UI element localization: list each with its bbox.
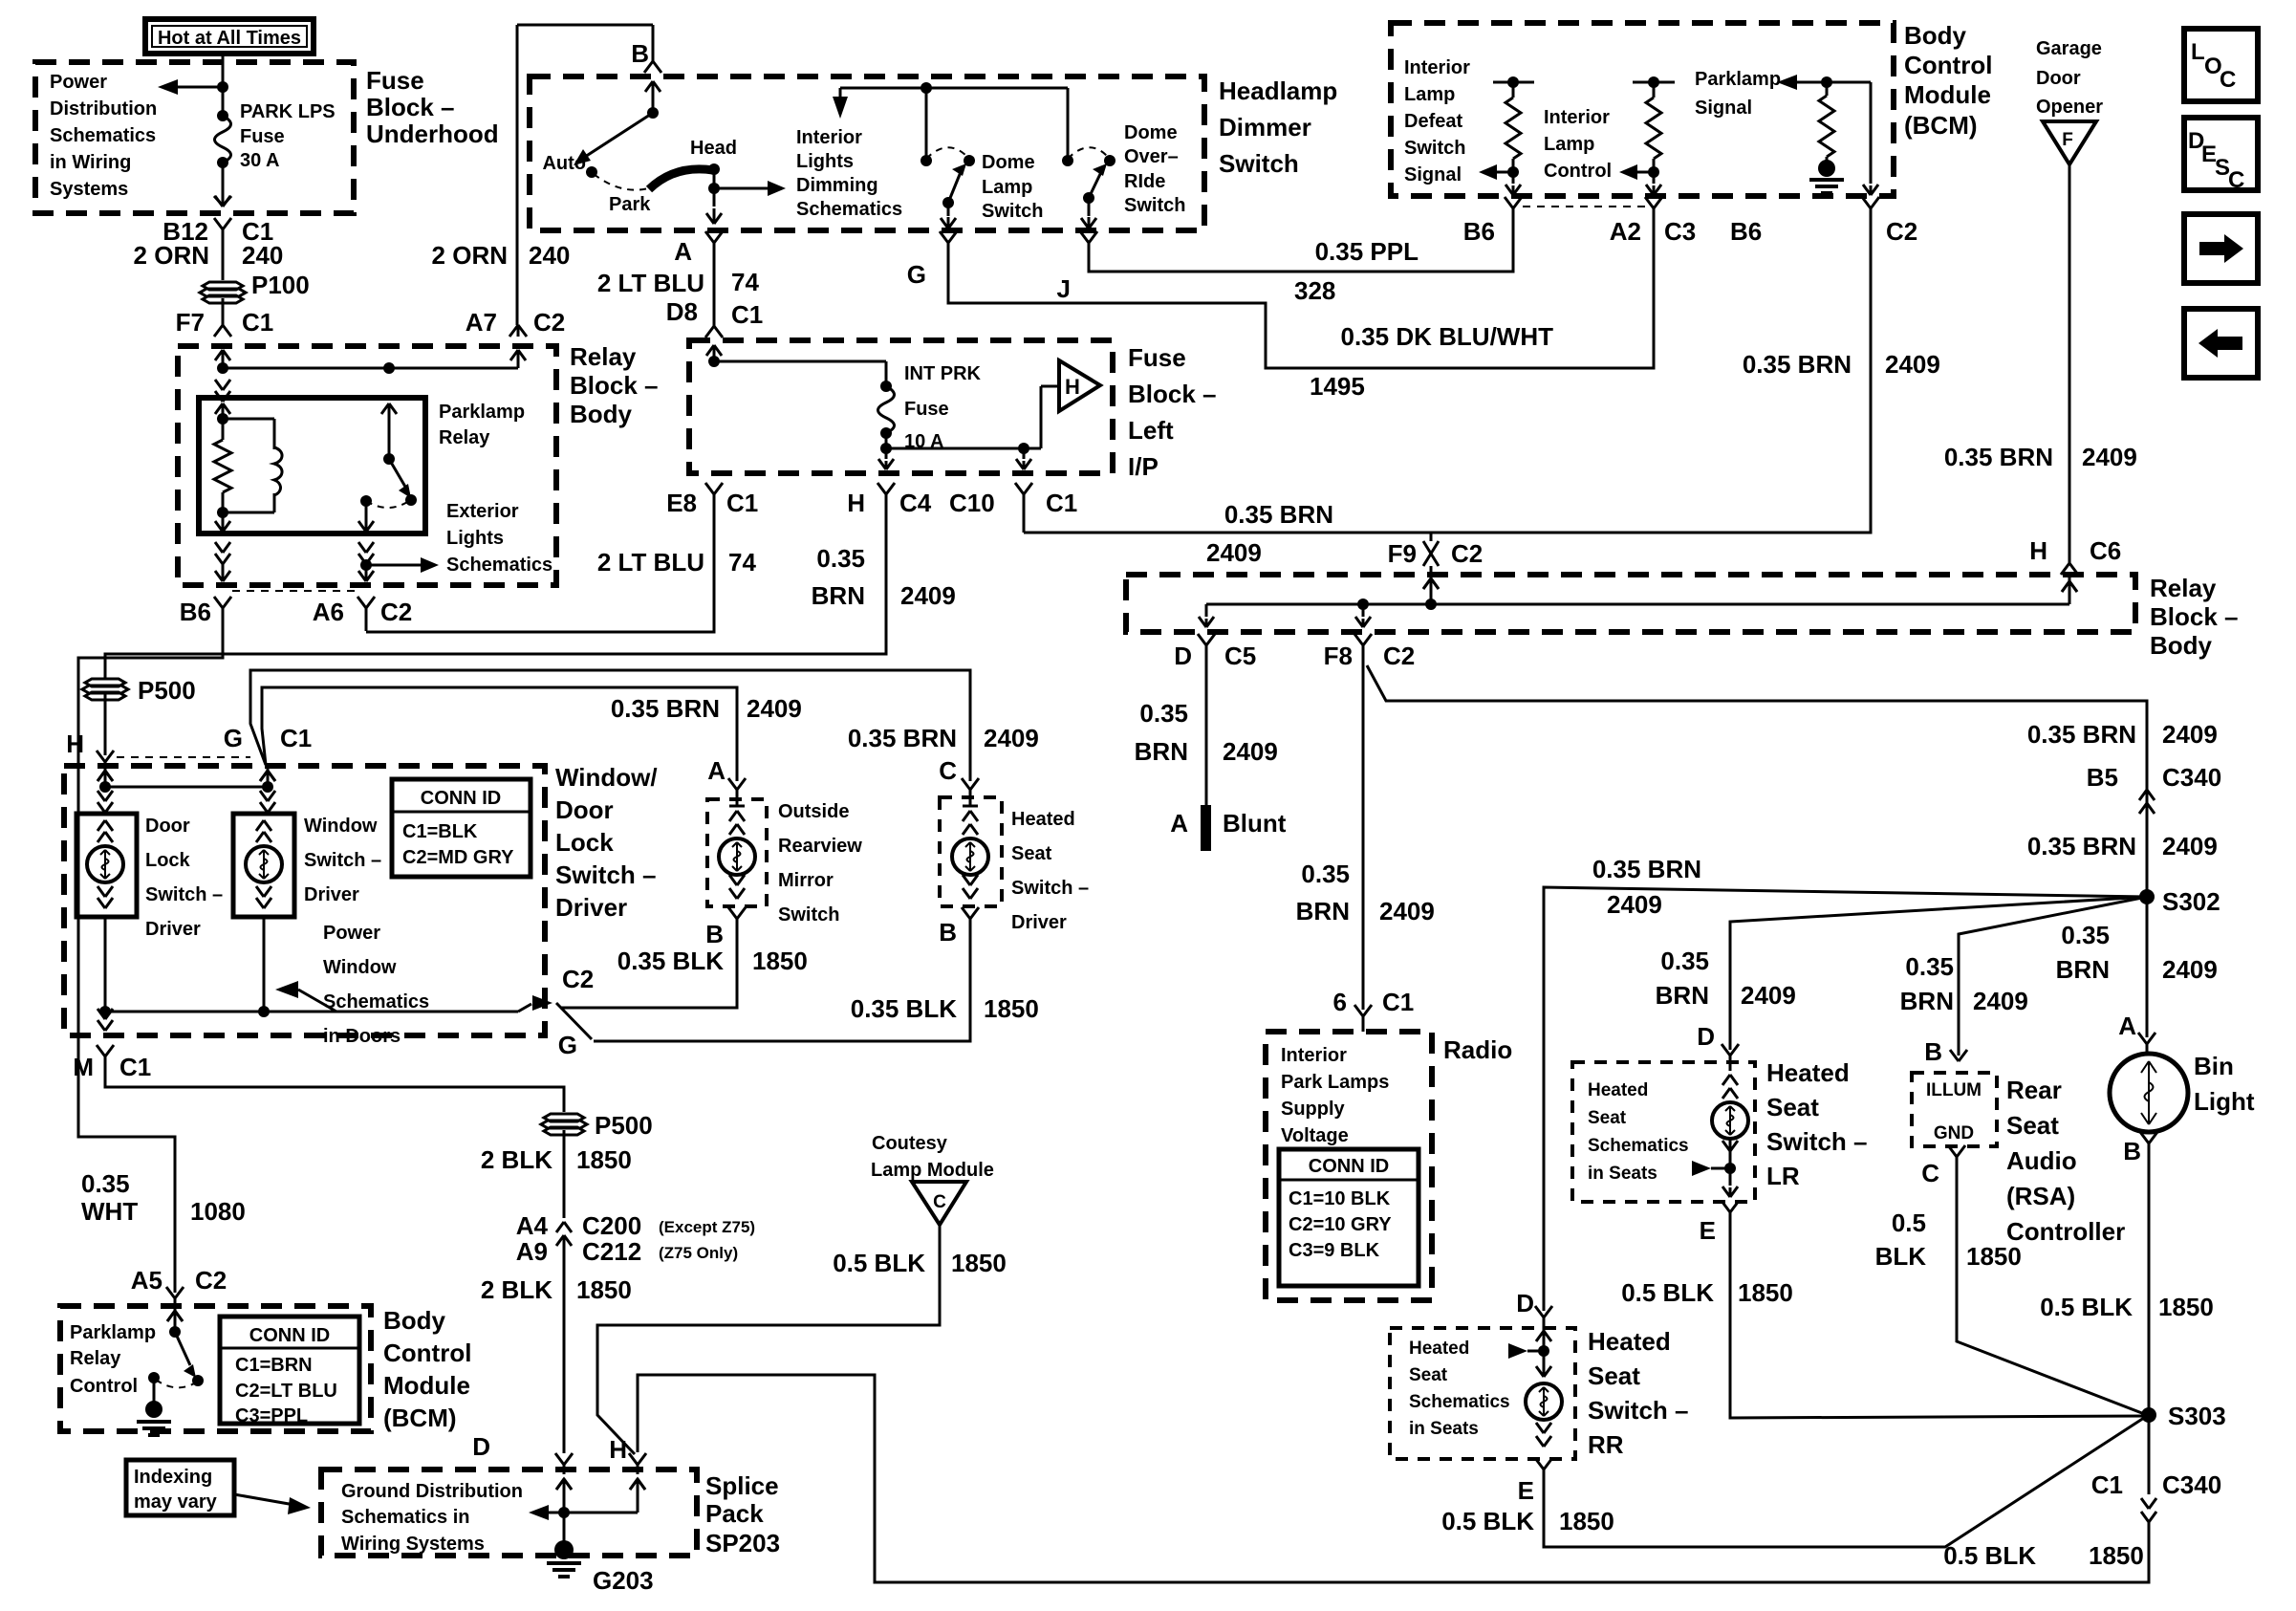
dashed box: Relay Block - Body (right) — [1126, 575, 2135, 632]
svg-text:Control: Control — [1544, 161, 1612, 182]
svg-text:0.35 BRN: 0.35 BRN — [1224, 500, 1333, 529]
svg-text:Lamp Module: Lamp Module — [871, 1160, 994, 1181]
wire C200 to splice D — [563, 1235, 566, 1453]
svg-text:C2: C2 — [533, 308, 565, 337]
svg-text:E: E — [1700, 1216, 1716, 1245]
dashed arc dome lamp switch — [926, 147, 966, 159]
svg-text:Body: Body — [2150, 631, 2213, 660]
wire mirror A riser — [262, 687, 737, 781]
connector A (mirror) — [728, 778, 737, 790]
wire heated RR E to S303 — [1544, 1416, 2147, 1547]
svg-text:2 ORN: 2 ORN — [134, 241, 209, 270]
wire heated LR E to S303 — [1730, 1226, 2147, 1418]
relay switch feed arrow — [381, 403, 389, 414]
C1 exit arrow — [1023, 448, 1026, 459]
svg-text:Body: Body — [1904, 21, 1967, 50]
svg-text:Heated: Heated — [1588, 1080, 1648, 1100]
parklamp relay control blade — [175, 1332, 190, 1365]
svg-text:Control: Control — [70, 1376, 138, 1397]
wire RSA C to S303 — [1957, 1170, 2147, 1415]
dashed box: Radio — [1266, 1032, 1432, 1300]
svg-text:C: C — [933, 1192, 946, 1212]
svg-text:C1: C1 — [2091, 1470, 2123, 1499]
connector B6 (relay block) — [214, 597, 223, 608]
svg-text:Lock: Lock — [555, 828, 614, 857]
connector D (heated RR) — [1535, 1306, 1544, 1317]
garage door opener triangle F — [2043, 121, 2096, 164]
svg-text:Switch –: Switch – — [304, 850, 381, 871]
fuse block feed arrow — [706, 345, 714, 356]
svg-text:D: D — [1697, 1022, 1715, 1051]
door lock lamp symbol — [97, 820, 105, 831]
svg-text:A6: A6 — [313, 598, 344, 626]
dome override feed — [1067, 88, 1070, 161]
svg-text:1850: 1850 — [1738, 1278, 1793, 1307]
connector 6 / C1 (radio) — [1354, 1005, 1363, 1016]
svg-text:2409: 2409 — [1206, 538, 1262, 567]
connector P100 — [203, 282, 243, 290]
wire Head down to A — [713, 169, 716, 207]
wire F8 down to radio — [1362, 662, 1365, 1010]
splice H entry arrow — [637, 1465, 639, 1474]
thin dashed strip H to G — [117, 756, 250, 758]
connector F7 / C1 — [214, 325, 223, 337]
connector E8 / C1 — [705, 483, 714, 494]
connector B6 / C2 (parklamp signal) — [1862, 197, 1871, 208]
relay block internal bus — [1206, 603, 2069, 606]
svg-text:Lights: Lights — [796, 151, 854, 172]
connector C1 / C340 — [2141, 1498, 2149, 1509]
heated RR switch symbol — [1543, 1331, 1546, 1377]
connector B5 / C340 — [2139, 790, 2147, 800]
reference box LOC — [2184, 29, 2258, 101]
svg-text:H: H — [66, 729, 84, 758]
svg-text:PARK LPS: PARK LPS — [240, 101, 336, 122]
svg-text:P500: P500 — [595, 1111, 653, 1140]
svg-text:E: E — [1518, 1476, 1534, 1505]
svg-text:M: M — [73, 1053, 94, 1081]
window switch box — [233, 814, 294, 917]
svg-text:Switch: Switch — [1219, 149, 1299, 178]
courtesy lamp triangle C — [912, 1182, 966, 1225]
svg-text:Schematics: Schematics — [1588, 1136, 1689, 1156]
wire heated seats ground to splice H — [638, 1375, 2149, 1582]
wire: hot feed into PARK LPS fuse — [222, 54, 225, 116]
svg-text:Headlamp: Headlamp — [1219, 76, 1337, 105]
connector H / C4 — [877, 483, 886, 494]
connector F8 / C2 — [1354, 634, 1363, 645]
svg-text:in Seats: in Seats — [1409, 1419, 1479, 1439]
svg-text:may vary: may vary — [134, 1491, 218, 1513]
svg-text:in Wiring: in Wiring — [50, 152, 131, 173]
connector B (bin light) — [2140, 1132, 2149, 1143]
parklamp relay control contacts — [192, 1375, 204, 1386]
svg-text:Lamp: Lamp — [1544, 134, 1594, 155]
svg-text:Park: Park — [609, 194, 651, 215]
svg-text:S303: S303 — [2168, 1402, 2226, 1430]
dimmer switch blade to Auto — [585, 113, 653, 157]
svg-text:C5: C5 — [1224, 642, 1256, 670]
svg-text:2409: 2409 — [2162, 955, 2218, 984]
svg-text:2409: 2409 — [900, 581, 956, 610]
junction on hot feed — [217, 81, 228, 93]
wire: P100 to F7 — [222, 298, 225, 325]
connector B12 / C1 — [214, 218, 223, 229]
svg-text:Schematics in: Schematics in — [341, 1507, 470, 1528]
svg-text:C1: C1 — [1046, 489, 1077, 517]
resistor: interior lamp control — [1633, 81, 1675, 84]
svg-text:Parklamp: Parklamp — [1695, 69, 1781, 90]
wire/arrow F7 entry — [215, 350, 223, 360]
svg-text:0.35: 0.35 — [1139, 699, 1188, 728]
connector H / C6 — [2061, 563, 2069, 575]
svg-text:H: H — [2029, 536, 2047, 565]
arrow lamp control — [1634, 171, 1654, 174]
svg-text:Head: Head — [690, 138, 737, 159]
svg-text:Switch –: Switch – — [1588, 1396, 1688, 1425]
dashed box: Heated Seat Switch - LR — [1572, 1062, 1755, 1202]
heated seat driver switch symbol — [969, 790, 972, 806]
mirror switch symbol — [736, 790, 739, 806]
thin dashed strip under BCM — [1523, 206, 1646, 207]
svg-text:Window: Window — [304, 816, 378, 837]
svg-text:F8: F8 — [1324, 642, 1353, 670]
fuse output junction — [885, 433, 888, 448]
relay coil entry arrow — [215, 403, 223, 414]
svg-text:Schematics: Schematics — [1409, 1392, 1510, 1412]
dome feed arrow down — [839, 88, 842, 98]
svg-text:Seat: Seat — [2006, 1111, 2059, 1140]
svg-text:CONN ID: CONN ID — [421, 788, 501, 809]
svg-text:0.35 BRN: 0.35 BRN — [2027, 832, 2136, 860]
CONN ID box (radio) — [1279, 1149, 1419, 1286]
svg-text:G203: G203 — [593, 1566, 654, 1595]
svg-text:C10: C10 — [949, 489, 995, 517]
connector B6 (defeat) — [1505, 197, 1513, 208]
svg-text:B: B — [705, 920, 724, 948]
label box: Indexing may vary — [126, 1460, 234, 1515]
svg-text:C2: C2 — [1451, 539, 1483, 568]
connector D8 / C1 — [705, 326, 714, 337]
wire BCM C2 down to F9 bus — [1024, 208, 1871, 533]
feed bus — [99, 781, 111, 793]
svg-text:A9: A9 — [516, 1237, 548, 1266]
internal ground bus to C2 — [105, 1011, 518, 1013]
svg-text:Schematics: Schematics — [446, 555, 552, 576]
dome lamp switch contact — [964, 155, 975, 166]
ground (BCM parklamp signal) — [1809, 178, 1844, 182]
svg-text:Switch: Switch — [778, 904, 839, 925]
svg-text:in Doors: in Doors — [323, 1026, 401, 1047]
window switch lamp symbol — [256, 820, 264, 831]
CONN ID box (window/door lock) — [392, 779, 531, 877]
svg-text:Dimming: Dimming — [796, 175, 878, 196]
ground G203 — [547, 1561, 581, 1565]
relay switch output arrow — [365, 501, 368, 522]
svg-text:B: B — [939, 918, 957, 947]
svg-text:A: A — [674, 237, 692, 266]
svg-text:C200: C200 — [582, 1211, 641, 1240]
heated LR switch symbol — [1729, 1056, 1732, 1071]
door lock lead chevrons — [97, 791, 105, 801]
connector B (RSA) — [1950, 1050, 1959, 1061]
svg-text:Seat: Seat — [1588, 1361, 1640, 1390]
dashed box: Relay Block - Body (left) — [178, 346, 556, 585]
svg-text:Switch –: Switch – — [1011, 878, 1089, 899]
arrow power window schematics — [275, 981, 298, 998]
svg-text:S302: S302 — [2162, 887, 2220, 916]
connector P500 (upper) — [85, 679, 125, 686]
svg-text:WHT: WHT — [81, 1197, 138, 1226]
svg-text:I/P: I/P — [1128, 452, 1159, 481]
svg-text:F7: F7 — [176, 308, 205, 337]
svg-text:Block –: Block – — [1128, 380, 1217, 408]
svg-text:Lamp: Lamp — [1404, 84, 1455, 105]
connector G (dimmer) — [940, 231, 948, 243]
svg-text:G: G — [907, 260, 926, 289]
svg-text:C2: C2 — [195, 1266, 227, 1295]
svg-text:Switch –: Switch – — [555, 860, 656, 889]
svg-text:0.35 BLK: 0.35 BLK — [617, 947, 724, 975]
door lock switch box — [76, 814, 137, 917]
svg-text:Power: Power — [323, 923, 380, 944]
svg-text:1850: 1850 — [576, 1275, 632, 1304]
H/C4 exit arrow — [885, 448, 888, 459]
junction F7 bus — [217, 362, 228, 374]
heated LR exit arrow — [1722, 1186, 1730, 1197]
svg-text:0.35 BRN: 0.35 BRN — [848, 724, 957, 752]
connector D / C5 — [1198, 634, 1206, 645]
svg-text:0.35 BLK: 0.35 BLK — [851, 994, 957, 1023]
svg-text:2409: 2409 — [1973, 987, 2028, 1015]
connector D (heated LR) — [1722, 1044, 1730, 1056]
dashed box: Fuse Block - Left I/P — [689, 340, 1113, 473]
svg-text:Underhood: Underhood — [366, 120, 499, 148]
connector B — [644, 61, 653, 73]
svg-text:H: H — [1065, 375, 1080, 399]
svg-text:H: H — [609, 1435, 627, 1464]
svg-text:30 A: 30 A — [240, 150, 280, 171]
svg-text:Interior: Interior — [796, 127, 862, 148]
F9 entry arrow — [1423, 578, 1431, 589]
dashed link relay contacts — [366, 501, 409, 508]
bin light — [2110, 1054, 2188, 1132]
svg-text:C: C — [2228, 167, 2244, 193]
M exit chevrons — [97, 1009, 105, 1019]
Auto contact — [586, 166, 597, 178]
svg-text:P500: P500 — [138, 676, 196, 705]
svg-text:Garage: Garage — [2036, 38, 2102, 59]
relay coil — [223, 418, 274, 421]
svg-text:Dome: Dome — [1124, 122, 1178, 143]
dashed box: Power Distribution Schematics in Wiring Systems — [35, 62, 354, 213]
svg-text:CONN ID: CONN ID — [1309, 1156, 1389, 1177]
svg-text:1495: 1495 — [1310, 372, 1365, 401]
D exit — [1205, 604, 1208, 617]
svg-text:D8: D8 — [666, 297, 698, 326]
wire 2 ORN to headlamp dimmer B — [516, 25, 519, 325]
dashed box: Headlamp Dimmer Switch — [530, 76, 1204, 230]
svg-text:Signal: Signal — [1404, 164, 1462, 185]
splice D entry arrow — [563, 1465, 566, 1474]
wire 0.35 PPL 328 — [1089, 208, 1513, 272]
ground (parklamp relay control) — [137, 1420, 171, 1424]
svg-text:0.35 BRN: 0.35 BRN — [1743, 350, 1852, 379]
svg-text:0.35: 0.35 — [2061, 921, 2110, 949]
svg-text:(BCM): (BCM) — [383, 1404, 457, 1432]
blunt terminal — [1201, 805, 1211, 851]
arrow defeat signal — [1493, 171, 1513, 174]
svg-text:A: A — [1170, 809, 1188, 838]
wire P500 to C200 — [563, 1130, 566, 1218]
dimmer A exit arrow — [706, 213, 714, 224]
svg-text:Power: Power — [50, 72, 107, 93]
svg-text:Auto: Auto — [542, 153, 586, 174]
svg-text:Window: Window — [323, 957, 397, 978]
svg-text:G: G — [558, 1031, 577, 1059]
wire mirror B to C2 — [560, 931, 737, 1008]
svg-text:D: D — [472, 1432, 490, 1461]
svg-text:2409: 2409 — [2162, 832, 2218, 860]
svg-text:0.35 DK BLU/WHT: 0.35 DK BLU/WHT — [1341, 322, 1554, 351]
connector E (heated LR) — [1722, 1201, 1730, 1212]
relay switch blade — [389, 459, 405, 487]
svg-text:C1: C1 — [726, 489, 758, 517]
connector A (bin light) — [2138, 1033, 2147, 1044]
thin dashed connector strip — [232, 590, 356, 592]
wire C10/C1 to F9 bus — [1023, 509, 1026, 533]
svg-text:Switch: Switch — [1124, 195, 1185, 216]
wire A7 riser — [517, 350, 520, 368]
svg-text:Driver: Driver — [555, 893, 627, 922]
svg-text:Audio: Audio — [2006, 1146, 2077, 1175]
connector H (window/door lock) — [97, 751, 105, 762]
svg-text:A: A — [707, 756, 726, 785]
heated RR splice arrow — [1508, 1343, 1527, 1359]
connector A2 / C3 — [1645, 197, 1654, 208]
dome lamp switch feed — [925, 88, 928, 161]
svg-text:Door: Door — [555, 795, 614, 824]
svg-text:CONN ID: CONN ID — [249, 1325, 330, 1346]
Head contact — [708, 163, 720, 175]
svg-text:1850: 1850 — [576, 1145, 632, 1174]
relay switch pivot — [383, 453, 395, 465]
dashed box: Outside Rearview Mirror Switch — [707, 799, 767, 906]
heated LR splice arrow — [1692, 1161, 1711, 1176]
wire: fuse to B12 — [222, 163, 225, 205]
connector C (heated seat driver) — [962, 778, 970, 790]
svg-text:C212: C212 — [582, 1237, 641, 1266]
svg-text:Coutesy: Coutesy — [872, 1133, 948, 1154]
svg-text:Heated: Heated — [1409, 1339, 1469, 1359]
dome override contact — [1104, 155, 1116, 166]
wire garage door opener to H/C6 — [2069, 164, 2071, 563]
wire S303 to C1/C340 — [2148, 1415, 2151, 1494]
resistor: interior lamp defeat — [1493, 81, 1534, 84]
svg-text:L: L — [2191, 39, 2205, 65]
svg-text:INT PRK: INT PRK — [904, 363, 982, 384]
svg-text:BRN: BRN — [1900, 987, 1954, 1015]
svg-text:Lamp: Lamp — [982, 177, 1032, 198]
svg-text:Indexing: Indexing — [134, 1467, 212, 1488]
svg-text:Relay: Relay — [439, 427, 490, 448]
svg-text:2409: 2409 — [984, 724, 1039, 752]
junction exterior lights — [360, 559, 372, 571]
svg-text:Defeat: Defeat — [1404, 111, 1462, 132]
wire E8 to A6/C2 — [366, 509, 714, 632]
svg-text:Schematics: Schematics — [50, 125, 156, 146]
reference box arrow right — [2184, 214, 2258, 283]
svg-text:1850: 1850 — [1559, 1507, 1614, 1535]
connector C10 / C1 — [1015, 483, 1024, 494]
svg-text:C1: C1 — [1382, 988, 1414, 1016]
wire G riser to supply — [250, 670, 970, 781]
relay to A6 lead chevrons — [215, 542, 223, 553]
wire heated B to C2 — [594, 932, 970, 1041]
dome lamp switch blade — [942, 197, 954, 208]
H/C6 entry arrow — [2069, 575, 2071, 604]
svg-text:Distribution: Distribution — [50, 98, 157, 120]
svg-text:A7: A7 — [466, 308, 497, 337]
svg-text:Rearview: Rearview — [778, 836, 862, 857]
connector A7 / C2 labels — [509, 325, 518, 337]
svg-text:Body: Body — [570, 400, 633, 428]
svg-text:BLK: BLK — [1875, 1242, 1927, 1271]
svg-text:2 LT BLU: 2 LT BLU — [597, 269, 704, 297]
svg-text:C3=9 BLK: C3=9 BLK — [1289, 1240, 1380, 1261]
svg-text:Control: Control — [383, 1339, 471, 1367]
svg-text:0.5 BLK: 0.5 BLK — [833, 1249, 925, 1277]
svg-text:Rear: Rear — [2006, 1076, 2062, 1104]
connector A6 / C2 — [357, 597, 366, 608]
svg-text:2409: 2409 — [2162, 720, 2218, 749]
svg-text:Interior: Interior — [1281, 1045, 1347, 1066]
svg-text:H: H — [847, 489, 865, 517]
svg-text:C340: C340 — [2162, 1470, 2221, 1499]
svg-text:A: A — [2118, 1012, 2136, 1040]
control exit arrow — [1653, 172, 1656, 184]
dimmer feed arrow — [645, 81, 653, 92]
svg-text:Seat: Seat — [1011, 843, 1052, 864]
svg-text:1850: 1850 — [2158, 1293, 2214, 1321]
svg-text:BRN: BRN — [812, 581, 865, 610]
svg-text:240: 240 — [529, 241, 570, 270]
dashed box: Splice Pack SP203 — [321, 1469, 697, 1556]
svg-text:BRN: BRN — [1135, 737, 1188, 766]
wire H/C4 down: 0.35 BRN 2409 — [105, 509, 886, 677]
svg-text:BRN: BRN — [2056, 955, 2110, 984]
svg-text:B: B — [2123, 1137, 2141, 1165]
svg-text:Ground Distribution: Ground Distribution — [341, 1481, 523, 1502]
svg-text:Lights: Lights — [446, 528, 504, 549]
wire parklamp signal to B6/C2 — [1870, 82, 1873, 184]
dashed box: Window/Door Lock Switch - Driver — [64, 766, 545, 1035]
wire F8 branch to S302 — [1367, 665, 2147, 897]
svg-text:G: G — [224, 724, 243, 752]
wire S302 to RSA B — [1959, 897, 2147, 1056]
connector E (heated RR) — [1535, 1458, 1544, 1469]
svg-text:0.35 BRN: 0.35 BRN — [1592, 855, 1701, 883]
dome lamp switch exit — [947, 203, 950, 216]
wire fuse to H triangle — [886, 447, 1041, 450]
svg-text:Module: Module — [383, 1371, 470, 1400]
svg-text:RIde: RIde — [1124, 171, 1165, 192]
svg-text:C1=BLK: C1=BLK — [402, 821, 478, 842]
connector J — [1080, 231, 1089, 243]
relay switch contacts — [405, 494, 417, 506]
svg-text:Relay: Relay — [2150, 574, 2217, 602]
svg-text:Systems: Systems — [50, 179, 128, 200]
